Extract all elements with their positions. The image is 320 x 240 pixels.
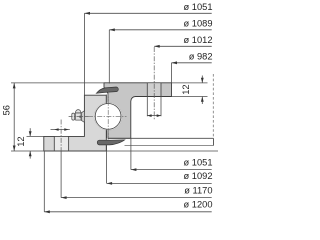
svg-text:12: 12 xyxy=(181,84,191,94)
dim 56 xyxy=(13,83,15,151)
seal bottom xyxy=(97,140,124,145)
svg-text:ø 1092: ø 1092 xyxy=(184,171,213,181)
bolt hole flange xyxy=(54,137,68,151)
flange hole dim xyxy=(51,129,70,131)
ball xyxy=(95,104,121,130)
nipple dot xyxy=(79,116,81,118)
outer ring xyxy=(104,83,172,139)
inner ring xyxy=(44,95,107,151)
ball centerline vertical xyxy=(107,92,109,140)
svg-text:ø 1051: ø 1051 xyxy=(184,2,213,12)
arm hole dim ext xyxy=(146,97,148,117)
svg-text:56: 56 xyxy=(2,105,12,115)
arm hole centerline xyxy=(153,47,155,121)
svg-text:ø 982: ø 982 xyxy=(189,51,213,61)
svg-text:12: 12 xyxy=(16,136,26,146)
dim 12 right ext lines xyxy=(172,82,208,84)
dim 12 left xyxy=(29,128,31,136)
bolt hole outer ring arm xyxy=(147,83,161,96)
svg-text:ø 1089: ø 1089 xyxy=(184,18,213,28)
svg-text:ø 1170: ø 1170 xyxy=(184,185,212,195)
flange hole centerline xyxy=(60,120,62,152)
grease nipple xyxy=(72,110,85,123)
svg-text:ø 1012: ø 1012 xyxy=(184,35,213,45)
svg-text:ø 1200: ø 1200 xyxy=(184,200,213,210)
dim 12 left ext top xyxy=(27,135,44,137)
svg-text:ø 1051: ø 1051 xyxy=(184,157,213,167)
dim 12 right xyxy=(201,76,203,83)
joint line below ball xyxy=(106,130,108,139)
bottom face long line xyxy=(11,150,218,152)
seal top xyxy=(96,87,118,93)
ball centerline horizontal xyxy=(88,115,127,117)
dim ext top face left xyxy=(11,82,104,84)
dashed structure line right xyxy=(212,74,214,138)
raceway gap xyxy=(94,102,122,130)
nipple centerline xyxy=(69,116,89,118)
mounting band right xyxy=(108,137,214,139)
joint line above ball xyxy=(105,95,107,104)
